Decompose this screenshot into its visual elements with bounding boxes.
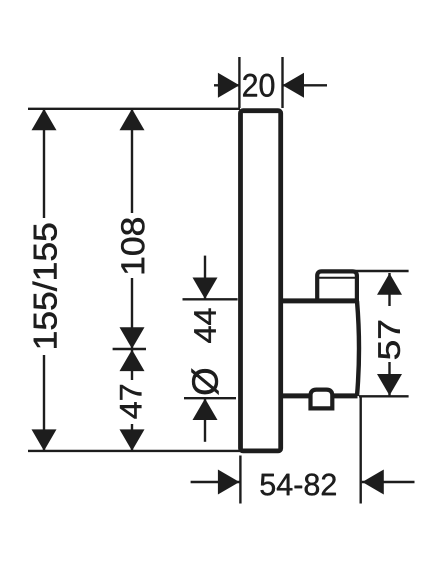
handle body bottom edge — [281, 393, 358, 398]
dimension 54-82: left extension line — [239, 456, 241, 504]
dimension 54-82: left arrow (outside, pointing right) — [218, 470, 240, 495]
dimension 54-82: right tail — [362, 481, 415, 483]
dimension 54-82: right extension line (from handle) — [360, 396, 362, 503]
dimension 54-82: label — [261, 474, 336, 496]
dimension 47: bottom arrow — [120, 429, 145, 451]
dimension O44: label diameter symbol — [191, 369, 218, 395]
bottom reference extension line — [28, 450, 240, 452]
dimension 57: bottom arrow — [377, 374, 402, 396]
dimension 47: top arrow — [120, 350, 145, 372]
dimension O44: label 44 — [194, 309, 215, 343]
dimension 57: label gap — [376, 306, 403, 362]
dimension 57: top extension line — [353, 270, 408, 272]
dimension 155/155: top arrow — [32, 109, 57, 131]
handle body right edge (slightly convex) — [357, 301, 359, 396]
dimension 108: bottom arrow — [120, 327, 145, 349]
dimension O44: lower tail line — [204, 399, 206, 442]
dimension O44: upper tail line — [204, 256, 206, 299]
dimension 155/155: bottom arrow — [32, 429, 57, 451]
dimension 57: top arrow — [377, 273, 402, 295]
handle body top edge — [281, 298, 358, 303]
stop button below handle — [311, 390, 333, 409]
shared tick between 108 and 47 — [113, 348, 146, 350]
dimension 54-82: right arrow (outside, pointing left) — [362, 470, 384, 495]
dimension 20: left extension line — [238, 57, 240, 108]
dimension 20: right extension line — [281, 57, 283, 108]
dimension 47: label — [120, 385, 141, 418]
handle cap parting line — [319, 277, 356, 279]
dimension 57: dim line — [388, 273, 390, 396]
handle cap — [317, 271, 357, 302]
dimension 20: right tail — [283, 84, 328, 86]
dimension 20: label — [243, 74, 274, 97]
dimension 57: bottom extension line — [359, 395, 409, 397]
dimension 155/155: dim line — [43, 109, 45, 451]
top reference extension line — [28, 108, 240, 110]
dimension O44: upper tick — [183, 298, 238, 300]
dimension O44: lower tick — [184, 397, 236, 399]
dimension 54-82: left tail — [191, 481, 240, 483]
dimension 47: dim line — [131, 349, 133, 451]
wall plate, side view — [241, 111, 281, 451]
dimension O44: upper arrow (outside, pointing down) — [193, 278, 218, 300]
dimension 108: top arrow — [120, 109, 145, 131]
dimension 108: label — [121, 218, 144, 273]
dimension 20: right arrow (outside, pointing left) — [283, 73, 305, 98]
dimension 108: dim line — [131, 109, 133, 349]
dimension 57: label — [378, 321, 400, 359]
dimension 155/155: label — [33, 224, 57, 348]
dimension 20: left tail — [214, 84, 239, 86]
dimension 108: label gap — [119, 213, 146, 278]
dimension O44: lower arrow (outside, pointing up) — [193, 399, 218, 421]
dimension 20: left arrow (outside, pointing right) — [218, 73, 240, 98]
dimension 155/155: label gap — [31, 218, 59, 355]
dimension 47: label gap — [119, 380, 146, 424]
